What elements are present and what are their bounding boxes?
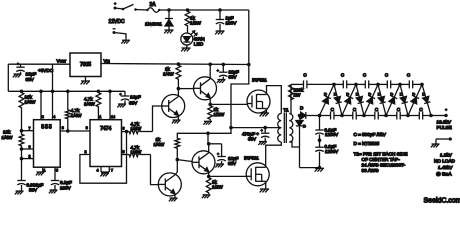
node bottom 2 <box>340 114 344 118</box>
svg-text:T1= PRI: 25T EACH SIDE: T1= PRI: 25T EACH SIDE <box>354 152 408 157</box>
wire M1 source gnd <box>265 109 267 113</box>
capacitor C (top 1) <box>343 80 346 88</box>
label 470uF 35V <box>242 131 259 141</box>
wire bottom seg0 <box>306 115 320 117</box>
node 555 pin7 <box>20 129 34 133</box>
wire top rail seg1 <box>334 83 356 85</box>
ground (Q1) <box>172 120 181 123</box>
svg-text:100V: 100V <box>226 21 238 26</box>
pin label 6 (7474) <box>123 127 125 131</box>
svg-text:3: 3 <box>86 126 88 130</box>
label T1 <box>283 108 289 113</box>
pin label 1 (7474) <box>99 115 101 119</box>
label 1k 1/2W (lower gate) <box>212 180 223 190</box>
diode D (down 4) <box>400 84 408 115</box>
label 220k 1W <box>294 88 305 98</box>
wire 7474 pin6 <box>122 131 129 133</box>
svg-text:10μF: 10μF <box>130 95 141 100</box>
capacitor 10uF 35V (input side) <box>16 62 24 73</box>
resistor 4.7k 1/4W (Q1 base) <box>128 129 153 134</box>
ground (10uF upper) <box>217 80 226 83</box>
resistor 4.7k 1/4W (pin1) <box>96 91 101 119</box>
label C (bottom 5) <box>419 107 423 112</box>
svg-text:2: 2 <box>29 154 31 158</box>
wire Q3 collector <box>175 160 177 175</box>
capacitor 10uF 35V (lower) <box>209 144 226 164</box>
resistor 1k 1/2W (LED) <box>185 10 190 27</box>
capacitor C (bottom 2) <box>353 112 356 120</box>
annotation D type <box>354 141 380 146</box>
wire lower 12V rail <box>177 128 231 137</box>
svg-text:1.45kV: 1.45kV <box>438 165 453 170</box>
node output terminal <box>444 108 447 117</box>
label 1.8kV NO LOAD <box>434 153 456 177</box>
label 1N4001 <box>145 22 162 28</box>
svg-text:10k: 10k <box>3 130 11 135</box>
node 470uF <box>263 126 267 130</box>
node above 1N4001 <box>167 8 171 12</box>
node HV ground <box>318 166 322 170</box>
diode D (up 2) <box>342 84 356 115</box>
wire Q1c to Q2 base <box>178 88 193 90</box>
node top 4 <box>398 83 402 87</box>
label 0.1uF 100V <box>60 180 72 191</box>
svg-text:1/4W: 1/4W <box>131 126 142 131</box>
node rail 4.7k pullup <box>66 90 70 94</box>
node Q1 collector <box>177 87 181 91</box>
node bottom rail 0.1uF <box>318 114 322 118</box>
node Q2 collector <box>208 63 212 67</box>
label 4.7k 1/4W (Q1 base) <box>131 122 142 132</box>
wire 7474 pin7 gnd <box>101 167 109 173</box>
diode D (down 1) <box>334 84 342 115</box>
wire output <box>431 115 446 117</box>
ground (M2) <box>260 189 269 192</box>
node center tap junction <box>229 126 233 130</box>
node lower rail tap <box>206 132 210 136</box>
ground (lower gate R) <box>202 195 211 198</box>
svg-text:6: 6 <box>29 145 31 149</box>
svg-text:10μF: 10μF <box>26 72 37 77</box>
svg-text:10.8kV: 10.8kV <box>437 120 452 125</box>
svg-text:1/4W: 1/4W <box>84 102 95 107</box>
diode D (up 5) <box>408 84 422 115</box>
wire LED to ground <box>186 45 188 48</box>
svg-text:1N4001: 1N4001 <box>145 22 162 28</box>
svg-text:D: D <box>368 92 371 97</box>
wire top rail <box>136 9 249 12</box>
diode D (up 3) <box>364 84 378 115</box>
node clock pullup <box>66 129 70 133</box>
wire R2 down <box>21 147 23 181</box>
label GRN LED <box>194 37 205 48</box>
svg-text:D: D <box>324 92 327 97</box>
svg-text:D: D <box>390 92 393 97</box>
svg-text:C: C <box>303 73 307 78</box>
node top 3 <box>376 83 380 87</box>
node bottom rail start <box>298 114 302 118</box>
svg-text:LED: LED <box>194 41 204 47</box>
wire secondary bottom <box>289 142 299 147</box>
node bottom 1 <box>318 114 322 118</box>
svg-text:D: D <box>303 124 306 129</box>
wire M2 source gnd <box>265 181 267 188</box>
svg-text:IRF511: IRF511 <box>252 77 267 82</box>
ground (LED) <box>181 48 190 51</box>
capacitor C (top 2) <box>365 80 368 88</box>
capacitor 470uF 35V <box>260 128 269 141</box>
label D (input) <box>300 106 304 111</box>
wire HV ground line <box>300 167 320 169</box>
node above 1uF <box>218 8 222 12</box>
wire bottom rail seg1 <box>320 115 343 117</box>
ground (input) <box>121 40 130 43</box>
svg-text:1/4W: 1/4W <box>25 100 36 105</box>
ground (470uF) <box>258 142 267 145</box>
wire Q4 emitter <box>208 172 210 177</box>
regulator U1 7805 <box>70 53 101 77</box>
label D (up 2) <box>346 92 349 97</box>
capacitor 0.1uF 1200V (upper) <box>315 116 323 141</box>
ground (1uF) <box>215 31 224 34</box>
svg-text:1/4W: 1/4W <box>131 150 142 155</box>
wire VOUT run <box>8 64 70 91</box>
pin label 1 <box>44 169 46 173</box>
svg-text:D: D <box>412 92 415 97</box>
svg-text:35V: 35V <box>229 75 238 80</box>
node bottom end <box>429 114 433 118</box>
resistor 1k 1/4W (upper pullup) <box>176 64 181 89</box>
pin label 3 (7474) <box>86 126 88 130</box>
capacitor C (bottom 1) <box>331 112 334 120</box>
wire top rail drop <box>248 10 250 65</box>
label VIN <box>104 59 111 64</box>
wire bottom rail seg2 <box>342 115 364 117</box>
annotation T1 winding <box>354 152 408 174</box>
diode D (down 2) <box>356 84 364 115</box>
wire 555 pin5 <box>54 167 56 180</box>
node top 2 <box>354 83 358 87</box>
label 10k 1/4W (R1) <box>25 95 36 105</box>
wire M1 drain <box>267 86 282 114</box>
node bottom 3 <box>362 114 366 118</box>
node rail upper pullup <box>177 62 181 66</box>
svg-text:12VDC: 12VDC <box>109 19 126 25</box>
node rail 555 pin8 <box>39 90 43 94</box>
label C (top 1) <box>341 73 345 78</box>
svg-text:35V: 35V <box>248 137 257 142</box>
wire Q1 emitter gnd <box>177 116 179 120</box>
svg-text:T1: T1 <box>283 108 289 113</box>
node rail 555 pin4 <box>51 90 55 94</box>
svg-text:1/2W: 1/2W <box>212 185 223 190</box>
capacitor C (bottom 4) <box>397 112 400 120</box>
wire 7474 pin2 feedback <box>80 132 127 184</box>
switch S1 <box>122 4 137 10</box>
label C (top 2) <box>363 73 367 78</box>
label D (up 3) <box>368 92 371 97</box>
svg-text:C: C <box>363 73 367 78</box>
node bottom 4 <box>384 114 388 118</box>
svg-text:1/4W: 1/4W <box>2 135 13 140</box>
label IRF511 (M2) <box>244 155 259 160</box>
svg-text:1.8kV: 1.8kV <box>440 153 453 158</box>
label D (up 5) <box>412 92 415 97</box>
svg-text:5: 5 <box>56 169 58 173</box>
svg-text:7: 7 <box>29 127 31 131</box>
pin label 5 <box>56 169 58 173</box>
wire M2 drain <box>266 142 282 167</box>
pin label 7 (7474) <box>111 169 113 173</box>
flipflop U3 7474 <box>90 120 122 167</box>
label D (down 2) <box>356 92 359 97</box>
wire 7805 gnd <box>85 77 87 81</box>
capacitor C (bottom 5) <box>419 112 422 120</box>
svg-text:@ 5mA: @ 5mA <box>436 172 452 177</box>
wire top rail seg0 <box>307 83 334 85</box>
node top 5 <box>420 83 424 87</box>
capacitor 0.001uF 50V <box>17 181 25 191</box>
svg-text:C = 500pF /3kV: C = 500pF /3kV <box>354 132 387 137</box>
node lower feed <box>207 142 211 146</box>
wire Q4 collector <box>208 144 210 153</box>
node top 1 <box>332 83 336 87</box>
pin label 5 (7474) <box>123 150 125 154</box>
pin label 3 (555) <box>62 126 64 130</box>
node 12V junction <box>247 63 251 67</box>
pin label 6 <box>29 145 31 149</box>
svg-text:14: 14 <box>111 115 115 119</box>
label 4.7k 1/4W (Q3 base) <box>131 145 142 155</box>
node between 0.1uF <box>318 138 322 142</box>
transistor Q1 <box>162 95 185 118</box>
wire bottom rail seg3 <box>364 115 386 117</box>
wire 7474 pin14 <box>109 91 111 119</box>
wire bottom rail seg4 <box>386 115 408 117</box>
ground (Q3) <box>169 198 178 201</box>
label IRF511 (M1) <box>252 77 267 82</box>
wire lower feed <box>207 133 210 144</box>
pin label 8 <box>42 115 44 119</box>
transistor Q4 <box>192 151 215 174</box>
ground (7805) <box>81 81 90 84</box>
diode D (input) <box>300 112 306 119</box>
ground (10uF input) <box>13 74 22 77</box>
label D (down 1) <box>334 92 337 97</box>
svg-text:C: C <box>353 107 357 112</box>
svg-text:100V: 100V <box>60 186 72 191</box>
wire Q3 emitter gnd <box>174 194 176 198</box>
label C (bottom 3) <box>375 107 379 112</box>
label 10k 1/4W (R2) <box>2 130 13 141</box>
label 0.1uF 1200V (lower) <box>325 144 340 154</box>
svg-text:1/4W: 1/4W <box>163 72 174 77</box>
svg-text:1/2W: 1/2W <box>214 112 225 117</box>
svg-text:D: D <box>400 92 403 97</box>
label VOUT <box>57 59 67 64</box>
LED GRN <box>181 31 197 45</box>
label 1k 1/2W (upper gate) <box>214 107 225 117</box>
svg-text:C: C <box>407 73 411 78</box>
svg-text:1: 1 <box>99 115 101 119</box>
node 555 pin2 <box>20 157 34 161</box>
label 10.8kV PULSE <box>437 120 452 130</box>
capacitor 0.1uF 100V <box>51 181 59 190</box>
wire 555 pin1 <box>42 167 44 171</box>
svg-text:7805: 7805 <box>80 62 91 68</box>
mosfet M1 IRF511 <box>247 90 270 113</box>
timer U2 555 <box>34 120 61 168</box>
ground (0.001uF) <box>15 191 24 194</box>
svg-text:50V: 50V <box>29 188 38 193</box>
wire Q1 base <box>153 106 162 132</box>
svg-text:4: 4 <box>53 115 55 119</box>
resistor 1k 1/4W (lower pullup) <box>175 137 180 160</box>
label 1k 1/4W (lower) <box>154 137 165 147</box>
label 1k 1/4W (upper) <box>163 67 174 77</box>
label 10uF 35V (input) <box>26 72 37 83</box>
wire secondary top <box>289 99 291 114</box>
wire 555 pin4 drop <box>52 64 54 120</box>
node Q4 emitter <box>207 175 211 179</box>
label C (top 3) <box>385 73 389 78</box>
transistor Q3 <box>158 173 181 196</box>
ground (1N4001) <box>164 30 173 33</box>
svg-text:OF CENTER TAP-: OF CENTER TAP- <box>362 157 401 162</box>
wire 12V to center tap <box>231 65 249 128</box>
label C (top 4) <box>407 73 411 78</box>
wire 555 pin8 <box>40 91 42 119</box>
svg-text:2A: 2A <box>150 2 157 8</box>
12VDC input negative terminal <box>113 29 127 40</box>
svg-text:VOUT: VOUT <box>57 59 67 64</box>
svg-text:D: D <box>356 92 359 97</box>
svg-text:24 AWG SEC:1800T-: 24 AWG SEC:1800T- <box>362 163 406 168</box>
svg-text:D: D <box>378 92 381 97</box>
node Q3 collector <box>176 158 180 162</box>
diode D (up 1) <box>320 84 335 115</box>
capacitor 1uF 100V <box>216 10 224 31</box>
wire bottom rail seg5 <box>408 115 431 117</box>
label +5VDC <box>38 68 54 73</box>
svg-text:1W: 1W <box>294 93 302 98</box>
label D (down 4) <box>400 92 403 97</box>
label D (up 4) <box>390 92 393 97</box>
svg-text:1/4W: 1/4W <box>154 142 165 147</box>
ground (5V rail cap) <box>117 104 126 107</box>
fuse F1 2A <box>146 8 160 13</box>
wire Q3 base <box>151 155 159 185</box>
resistor 1k 1/2W (lower gate) <box>206 176 211 194</box>
wire VIN run <box>101 64 249 65</box>
label 1k 1/2W (LED) <box>190 16 201 26</box>
label D (down 3) <box>378 92 381 97</box>
svg-text:C: C <box>331 107 335 112</box>
ground (10uF lower) <box>215 164 224 167</box>
svg-text:1200V: 1200V <box>325 149 339 154</box>
svg-text:35V: 35V <box>129 101 138 106</box>
wire gate M1 <box>210 103 247 105</box>
svg-text:C: C <box>397 107 401 112</box>
label D (down 5) <box>422 92 425 97</box>
wire 555 pin3 to 7474 pin3 <box>60 130 90 132</box>
svg-text:0.1μF: 0.1μF <box>60 180 72 185</box>
wire +5V rail <box>8 90 125 92</box>
diode D (down 5) <box>422 84 431 115</box>
svg-text:1/2W: 1/2W <box>190 21 201 26</box>
ground (M1) <box>260 113 269 116</box>
pin label 4 <box>53 115 55 119</box>
wire Q2 emitter <box>209 98 211 105</box>
svg-text:555: 555 <box>41 125 52 131</box>
node 555 pin6 <box>20 147 34 151</box>
node above R LED <box>186 8 190 12</box>
svg-text:D: D <box>346 92 349 97</box>
transformer T1 secondary <box>289 114 293 143</box>
svg-text:VIN: VIN <box>104 59 111 64</box>
resistor 4.7k 1/4W (clock pullup) <box>65 91 70 131</box>
svg-text:5: 5 <box>123 150 125 154</box>
wire multiplier top rail start <box>291 84 303 98</box>
transformer T1 primary <box>278 114 282 143</box>
ground (7474) <box>100 173 109 176</box>
wire Q3c to Q4 base <box>177 160 192 162</box>
ground (HV) <box>315 168 324 171</box>
capacitor 10uF 35V (upper) <box>216 64 227 79</box>
svg-text:D: D <box>334 92 337 97</box>
svg-text:C: C <box>385 73 389 78</box>
wire top rail seg3 <box>378 83 400 85</box>
wire to LED <box>187 27 189 33</box>
capacitor 0.1uF 1200V (lower) <box>315 140 323 167</box>
ground (555 pin1) <box>36 172 45 175</box>
node bottom 5 <box>406 114 410 118</box>
ground (return) <box>431 144 440 147</box>
wire center tap <box>231 127 281 129</box>
mosfet M2 IRF511 <box>246 163 269 186</box>
diode D (shunt) <box>296 116 303 168</box>
svg-text:35V: 35V <box>228 161 237 166</box>
annotation C value <box>354 132 387 137</box>
watermark SeekIC.com <box>424 198 460 205</box>
resistor 10k 1/4W (R2) <box>19 133 24 147</box>
label 10uF 35V (5V rail) <box>129 95 141 106</box>
label 2A <box>150 2 157 8</box>
label 1uF 100V <box>226 16 238 26</box>
svg-text:6: 6 <box>123 127 125 131</box>
wire 7474 pin5 <box>122 154 129 156</box>
label 4.7k 1/4W (pin1) <box>84 97 95 107</box>
svg-text:+5VDC: +5VDC <box>38 68 54 73</box>
wire Q2 collector <box>209 64 211 79</box>
svg-text:7: 7 <box>111 169 113 173</box>
svg-text:C: C <box>341 73 345 78</box>
resistor 4.7k 1/4W (Q3 base) <box>128 152 151 157</box>
pin label 4 (7474) <box>97 169 99 173</box>
pin label 2 (7474) <box>85 150 87 154</box>
svg-text:4: 4 <box>97 169 99 173</box>
node rail 10k <box>20 90 24 94</box>
label 10uF 35V (upper) <box>229 70 240 80</box>
label C (bottom 1) <box>331 107 335 112</box>
resistor 1k 1/2W (upper gate) <box>208 104 213 120</box>
svg-text:1/4W: 1/4W <box>71 113 82 118</box>
svg-text:2: 2 <box>85 150 87 154</box>
pin label 14 <box>111 115 115 119</box>
label D (shunt) <box>303 124 306 129</box>
svg-text:D = NTE525: D = NTE525 <box>354 141 380 146</box>
capacitor C (bottom 3) <box>375 112 378 120</box>
